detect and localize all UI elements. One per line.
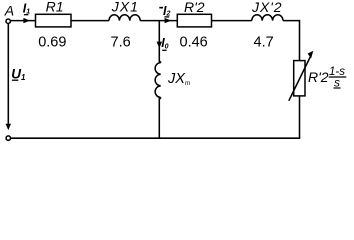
- current arrow -I2: [165, 18, 172, 23]
- arrowhead of variable resistor: [308, 51, 314, 59]
- inductor JXm (vertical, bumps left): [155, 63, 161, 98]
- variable-resistor diagonal arrow shaft: [289, 56, 311, 101]
- svg-text:R1: R1: [46, 0, 64, 15]
- fraction bar: [329, 76, 347, 78]
- current arrow I0 (down): [157, 42, 162, 49]
- resistor R1: [36, 14, 72, 27]
- wire R1 to JX1: [71, 20, 109, 22]
- resistor R'2: [177, 14, 211, 27]
- wire terminal A to R1: [11, 20, 36, 22]
- wire R'2 to JX'2: [212, 20, 252, 22]
- svg-text:7.6: 7.6: [111, 34, 131, 50]
- wire right branch lower: [299, 96, 301, 138]
- svg-text:I0: I0: [161, 36, 168, 51]
- inductor JX1: [109, 15, 140, 21]
- resistor R'2(1-s)/s (variable): [294, 61, 305, 96]
- svg-text:A: A: [4, 3, 14, 19]
- wire JX'2 to top-right corner: [283, 21, 300, 61]
- underline of -I2: [164, 16, 169, 18]
- underline of I0: [162, 49, 166, 51]
- underline of U1: [12, 79, 18, 81]
- wire middle branch lower: [159, 98, 160, 139]
- svg-text:0.69: 0.69: [38, 34, 66, 50]
- wire JX1 to node b: [140, 20, 159, 22]
- svg-text:I1: I1: [23, 2, 30, 16]
- svg-text:JX'2: JX'2: [251, 0, 282, 15]
- terminal bottom-left: [6, 136, 10, 140]
- svg-text:JXm: JXm: [167, 71, 191, 87]
- underline of I1: [24, 14, 29, 16]
- svg-text:s: s: [334, 75, 340, 89]
- svg-text:I2: I2: [163, 4, 170, 18]
- underline of s: [334, 87, 341, 89]
- wire middle branch upper: [159, 21, 160, 63]
- svg-text:4.7: 4.7: [254, 34, 274, 50]
- svg-text:R'2: R'2: [184, 0, 205, 15]
- label -I2 minus sign: [159, 7, 163, 9]
- inductor JX'2: [252, 15, 283, 21]
- wire node b to R'2: [159, 20, 177, 22]
- svg-text:0.46: 0.46: [180, 34, 208, 50]
- terminal A (top-left): [6, 19, 10, 23]
- svg-text:R'2: R'2: [308, 69, 329, 85]
- voltage arrow U1 (down): [6, 124, 11, 131]
- current arrow I1: [23, 18, 30, 23]
- wire left branch (U1): [7, 24, 9, 129]
- wire bottom rail: [11, 137, 301, 139]
- svg-text:JX1: JX1: [111, 0, 139, 15]
- svg-text:U1: U1: [11, 66, 26, 82]
